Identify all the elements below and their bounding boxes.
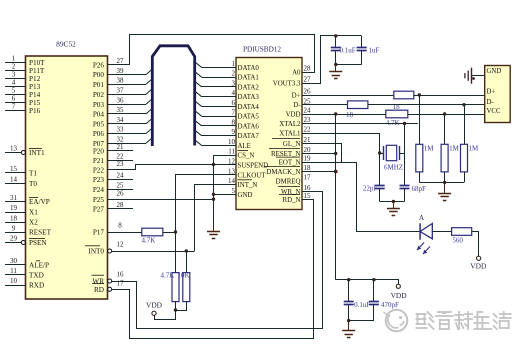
wire RESET_N tie to VDD — [302, 153, 336, 155]
resistor R 1M #3 — [461, 144, 468, 172]
svg-text:INT_N: INT_N — [238, 182, 258, 189]
svg-text:VCC: VCC — [487, 108, 501, 115]
89C52 pin 18 X2 wire — [5, 222, 26, 224]
svg-text:32: 32 — [117, 135, 125, 143]
svg-text:17: 17 — [117, 279, 125, 287]
svg-text:DATA3: DATA3 — [238, 94, 260, 101]
ground (crystal caps) — [393, 202, 395, 209]
svg-text:4.7K: 4.7K — [142, 236, 156, 244]
svg-text:DATA7: DATA7 — [238, 133, 260, 140]
wire XTAL2 row — [302, 123, 418, 125]
svg-text:35: 35 — [117, 106, 125, 114]
power VDD (LED) — [477, 256, 481, 260]
bus entry P00 — [146, 69, 152, 75]
svg-text:RXD: RXD — [29, 282, 44, 290]
capacitor C 0.1uF plates — [331, 47, 341, 49]
svg-text:X2: X2 — [29, 219, 38, 227]
svg-text:EOT_N: EOT_N — [279, 159, 301, 166]
junction DMACK_N/VDD tie — [334, 170, 338, 174]
svg-text:3: 3 — [12, 71, 16, 79]
svg-text:P04: P04 — [93, 111, 105, 119]
capacitor C 22pF plates — [375, 185, 385, 187]
svg-text:GL_N: GL_N — [283, 141, 301, 148]
svg-text:DATA5: DATA5 — [238, 114, 260, 121]
crystal Y1 6MHZ — [380, 153, 384, 155]
svg-text:13: 13 — [10, 145, 18, 153]
PDIUSBD12 pin 7 DATA5 stub + bus entry — [202, 116, 237, 118]
PDIUSBD12 pin 2 DATA1 stub + bus entry — [202, 77, 237, 79]
svg-text:T0: T0 — [29, 180, 37, 188]
89C52 pin 15 T1 wire — [5, 172, 26, 174]
wire P22 jog to SUSPEND — [108, 165, 237, 170]
earth symbol (connector GND) — [471, 68, 473, 84]
89C52 pin 31 EA/VP wire — [5, 201, 26, 203]
net VDD/VCC : wire + resistor 4.7K pull — [302, 114, 386, 116]
bus entry P07 — [146, 138, 152, 144]
junction resistor bottoms — [174, 308, 177, 311]
89C52 pin 8 P17 wire — [108, 232, 142, 234]
capacitor 470pF — [373, 280, 375, 302]
89C52 pin 3 P12 wire — [5, 78, 26, 80]
wire 560 to VDD — [472, 232, 479, 257]
PDIUSBD12 pin 10 ALE stub + bus entry — [202, 145, 237, 147]
capacitor 0.1uF (VOUT3.3) — [335, 36, 337, 47]
svg-text:P11T: P11T — [29, 67, 45, 75]
89C52 pin 14 T0 wire — [5, 183, 26, 185]
svg-text:P22: P22 — [93, 166, 105, 174]
svg-text:ALE: ALE — [238, 143, 251, 150]
svg-text:P14: P14 — [29, 91, 41, 99]
resistor 1M (D-) — [464, 105, 466, 145]
resistor R 4.7K on P17 — [142, 228, 163, 236]
svg-text:19: 19 — [304, 155, 312, 163]
capacitor 1uF — [361, 36, 363, 47]
89C52 pin 29 PSEN wire — [5, 242, 22, 244]
svg-text:P20: P20 — [93, 147, 105, 155]
svg-text:15: 15 — [10, 165, 18, 173]
svg-text:T1: T1 — [29, 169, 37, 177]
svg-text:P00: P00 — [93, 71, 105, 79]
wire P25 to ground net — [108, 199, 214, 201]
svg-text:4.7K: 4.7K — [161, 271, 175, 279]
svg-text:P02: P02 — [93, 91, 105, 99]
svg-text:DATA2: DATA2 — [238, 84, 260, 91]
junction VDD tie-down — [334, 112, 337, 115]
89C52 pin 11 TXD wire — [5, 274, 26, 276]
PDIUSBD12 pin 4 DATA3 stub + bus entry — [202, 96, 237, 98]
89C52 pin 13 INT1 wire — [5, 152, 22, 154]
svg-text:8: 8 — [232, 118, 236, 126]
svg-text:INT0: INT0 — [88, 248, 104, 256]
capacitor C 0.1uF (VDD) plates — [344, 301, 354, 303]
svg-text:6: 6 — [12, 95, 16, 103]
wire crystal cap rail — [380, 201, 405, 203]
svg-text:DATA4: DATA4 — [238, 104, 260, 111]
svg-text:21: 21 — [117, 143, 125, 151]
svg-text:P17: P17 — [93, 229, 105, 237]
wire P26 to A0 (net A0) — [108, 35, 315, 73]
PDIUSBD12 pin 6 DATA4 stub + bus entry — [202, 106, 237, 108]
svg-text:1M: 1M — [449, 144, 460, 152]
junction bottom caps ground — [347, 319, 350, 322]
89C52 pin 9 RESET wire — [5, 232, 26, 234]
LED D1 (GoodLink) — [414, 231, 421, 233]
wire VOUT3.3 to cap rail — [303, 36, 362, 84]
PDIUSBD12 pin 1 DATA0 stub + bus entry — [202, 67, 237, 69]
svg-text:27: 27 — [117, 57, 125, 65]
svg-text:VDD: VDD — [146, 301, 163, 310]
svg-text:4: 4 — [12, 79, 16, 87]
svg-text:VDD: VDD — [391, 291, 408, 300]
svg-text:1M: 1M — [469, 144, 480, 152]
svg-text:6: 6 — [232, 99, 236, 107]
junction 1M rail — [443, 181, 446, 184]
svg-text:1M: 1M — [424, 144, 435, 152]
bus entry P03 — [146, 99, 152, 105]
svg-text:16: 16 — [117, 271, 125, 279]
capacitor 0.1uF (VDD) — [348, 280, 350, 302]
svg-text:22: 22 — [304, 126, 312, 134]
junction P25/ground net — [212, 198, 215, 201]
svg-text:P27: P27 — [93, 205, 105, 213]
resistor R 4.7K (VDD line) — [386, 110, 408, 118]
PDIUSBD12 pin 3 DATA2 stub + bus entry — [202, 86, 237, 88]
resistor R 1M #2 — [441, 144, 448, 172]
svg-text:38: 38 — [117, 77, 125, 85]
svg-text:12: 12 — [117, 241, 125, 249]
wire bottom caps rail — [349, 320, 374, 322]
svg-text:89C52: 89C52 — [56, 40, 76, 49]
bus entry P05 — [146, 118, 152, 124]
capacitor C 1uF plates — [357, 47, 367, 49]
junction 470pF top — [372, 278, 375, 281]
svg-text:1: 1 — [12, 55, 16, 63]
svg-text:9: 9 — [232, 128, 236, 136]
svg-text:SUSPEND: SUSPEND — [238, 163, 269, 170]
svg-text:68pF: 68pF — [412, 185, 427, 193]
svg-text:23: 23 — [117, 160, 125, 168]
89C52 pin 28 P27 wire — [108, 208, 134, 210]
power VDD (supply) — [396, 284, 400, 288]
svg-text:P13: P13 — [29, 83, 41, 91]
junction cap rail — [334, 34, 337, 37]
junction 0.1uF top — [347, 278, 350, 281]
89C52 pin 32 P07 wire — [108, 143, 147, 145]
svg-text:7: 7 — [232, 109, 236, 117]
svg-text:26: 26 — [304, 88, 312, 96]
wire VDD tie-down vertical — [335, 114, 337, 280]
wire P17 resistor to CLKOUT vertical — [163, 232, 176, 234]
wire EOT_N stub — [302, 162, 342, 164]
svg-text:30: 30 — [10, 257, 18, 265]
89C52 pin 33 P06 wire — [108, 133, 147, 135]
WR bubble — [108, 279, 112, 283]
svg-text:33: 33 — [117, 126, 125, 134]
svg-text:A: A — [419, 214, 425, 222]
svg-text:P26: P26 — [93, 62, 105, 70]
junction crystal cap ground — [392, 200, 395, 203]
svg-text:10: 10 — [10, 277, 18, 285]
bus entry P02 — [146, 89, 152, 95]
svg-text:2: 2 — [232, 70, 236, 78]
svg-text:RD: RD — [94, 286, 104, 294]
svg-text:24: 24 — [304, 107, 312, 115]
89C52 pin 35 P04 wire — [108, 113, 147, 115]
svg-text:26: 26 — [117, 189, 125, 197]
svg-text:RD_N: RD_N — [283, 197, 301, 204]
PDIUSBD12 pin 9 DATA7 stub + bus entry — [202, 135, 237, 137]
svg-text:VOUT3.3: VOUT3.3 — [273, 80, 301, 87]
89C52 pin 13 bubble — [21, 151, 25, 155]
junction VCC/1M — [443, 112, 446, 115]
capacitor C 470pF plates — [369, 301, 379, 303]
junction RESET_N/VDD tie — [334, 152, 337, 155]
INT0 bubble — [108, 249, 112, 253]
svg-text:P21: P21 — [93, 157, 105, 165]
89C52 pin 34 P05 wire — [108, 123, 147, 125]
svg-text:P03: P03 — [93, 101, 105, 109]
wire XTAL1 row — [303, 134, 380, 154]
capacitor 68pF — [404, 124, 406, 186]
89C52 pin 39 P00 wire — [108, 74, 147, 76]
svg-text:DATA6: DATA6 — [238, 123, 260, 130]
svg-text:D+: D+ — [487, 89, 496, 96]
svg-text:16: 16 — [304, 184, 312, 192]
net D+ : wire + series resistor 18 — [302, 95, 394, 97]
89C52 pin 22 P21 wire — [108, 160, 134, 162]
power VDD (pull resistors) — [152, 311, 156, 315]
junction P17/CLKOUT — [174, 230, 177, 233]
svg-text:36: 36 — [117, 96, 125, 104]
svg-text:P23: P23 — [93, 176, 105, 184]
svg-text:DATA1: DATA1 — [238, 75, 260, 82]
svg-text:4: 4 — [232, 89, 236, 97]
resistor 1M (VCC) — [444, 114, 446, 144]
resistor R 18 (D+) — [394, 91, 414, 99]
svg-text:28: 28 — [304, 65, 312, 73]
89C52 pin 36 P03 wire — [108, 104, 147, 106]
watermark logo circle — [384, 310, 408, 332]
svg-text:18: 18 — [10, 214, 18, 222]
svg-text:7: 7 — [12, 103, 16, 111]
svg-text:4.7K: 4.7K — [386, 119, 400, 127]
89C52 pin 19 X1 wire — [5, 212, 26, 214]
LED arrows — [417, 243, 424, 251]
bus entry P06 — [146, 128, 152, 134]
resistor R 1M #1 — [416, 144, 423, 172]
svg-text:27: 27 — [304, 76, 312, 84]
wire 1M ground rail — [419, 182, 464, 184]
svg-text:15: 15 — [304, 192, 312, 200]
svg-text:P01: P01 — [93, 81, 105, 89]
wire INT0 riser to INT_N — [195, 185, 237, 252]
IC U2 PDIUSBD12 body — [236, 58, 302, 210]
svg-text:VDD: VDD — [470, 262, 487, 271]
svg-text:P06: P06 — [93, 130, 105, 138]
svg-text:DATA0: DATA0 — [238, 65, 260, 72]
svg-text:0.1uF: 0.1uF — [354, 301, 370, 309]
resistor R 10K (INT0 pull) — [186, 251, 188, 273]
svg-text:DMACK_N: DMACK_N — [266, 169, 300, 176]
svg-text:3: 3 — [232, 79, 236, 87]
svg-text:9: 9 — [12, 224, 16, 232]
IC U1 89C52 body — [26, 56, 108, 299]
89C52 pin 29 bubble — [21, 241, 25, 245]
svg-text:31: 31 — [10, 194, 18, 202]
svg-text:1: 1 — [232, 60, 236, 68]
89C52 pin 4 P13 wire — [5, 86, 26, 88]
svg-text:D-: D- — [293, 102, 301, 109]
89C52 pin 24 P23 wire — [108, 179, 134, 181]
svg-text:P16: P16 — [29, 107, 41, 115]
ground (VOUT3.3 caps) — [335, 65, 337, 72]
89C52 pin 6 P15 wire — [5, 102, 26, 104]
capacitor 22pF — [379, 153, 381, 186]
svg-text:10: 10 — [228, 138, 236, 146]
svg-text:1uF: 1uF — [369, 47, 380, 55]
svg-text:470pF: 470pF — [381, 301, 399, 309]
svg-text:TXD: TXD — [29, 272, 44, 280]
svg-text:P05: P05 — [93, 120, 105, 128]
wire DMACK_N tie to VDD — [302, 171, 336, 173]
svg-text:P12: P12 — [29, 75, 41, 83]
svg-text:GND: GND — [487, 68, 502, 75]
junction cap ground rail — [334, 63, 337, 66]
svg-text:X1: X1 — [29, 209, 38, 217]
connector J1 USB body — [485, 66, 511, 123]
svg-text:29: 29 — [10, 235, 18, 243]
svg-text:VDD: VDD — [286, 111, 301, 118]
capacitor C 68pF plates — [400, 185, 410, 187]
svg-text:WR: WR — [92, 278, 104, 286]
svg-text:28: 28 — [117, 201, 125, 209]
ground (CS_N/P25/GND net) — [213, 223, 215, 231]
junction CS_N/SUSPEND net — [212, 163, 215, 166]
svg-text:INT1: INT1 — [29, 149, 45, 157]
svg-text:EA/VP: EA/VP — [29, 198, 50, 206]
resistor 1M (D+ pulldown) — [419, 95, 421, 144]
junction GND pin — [212, 193, 215, 196]
resistor R 4.7K (vertical, CLKOUT/P17 net) — [172, 273, 179, 302]
svg-text:14: 14 — [10, 176, 18, 184]
ground (VDD caps) — [348, 321, 350, 331]
svg-text:P24: P24 — [93, 186, 105, 194]
svg-text:19: 19 — [10, 204, 18, 212]
svg-text:A0: A0 — [292, 69, 301, 76]
svg-text:P10T: P10T — [29, 59, 45, 67]
svg-text:ALE/P: ALE/P — [29, 261, 49, 269]
watermark text 影音新生活 (drawn strokes) — [417, 312, 434, 329]
svg-text:PDIUSBD12: PDIUSBD12 — [243, 46, 281, 54]
89C52 pin 7 P16 wire — [5, 110, 26, 112]
svg-text:CS_N: CS_N — [238, 153, 255, 160]
wire VDD rail (bottom caps) — [336, 280, 399, 285]
89C52 pin 2 P11T wire — [5, 70, 26, 72]
svg-text:10K: 10K — [178, 271, 190, 279]
svg-text:DMREQ: DMREQ — [276, 178, 301, 185]
wire LED to 560 — [432, 231, 451, 233]
89C52 pin 38 P01 wire — [108, 84, 147, 86]
bus entry P01 — [146, 79, 152, 85]
svg-text:XTAL2: XTAL2 — [279, 121, 301, 128]
svg-text:P25: P25 — [93, 196, 105, 204]
svg-text:22pF: 22pF — [363, 185, 378, 193]
bus entry P04 — [146, 108, 152, 114]
89C52 pin 5 P14 wire — [5, 94, 26, 96]
89C52 pin 21 P20 wire — [108, 150, 134, 152]
PDIUSBD12 pin 8 DATA6 stub + bus entry — [202, 125, 237, 127]
net D- : wire + series resistor 18 — [302, 104, 348, 106]
resistor R 18 (D-) — [348, 101, 368, 109]
svg-text:14: 14 — [228, 177, 236, 185]
svg-text:6MHZ: 6MHZ — [384, 163, 403, 171]
junction INT0/10K — [185, 249, 188, 252]
data bus AD0-AD7 (thick) — [152, 46, 194, 146]
svg-text:PSEN: PSEN — [29, 239, 47, 247]
svg-text:11: 11 — [10, 267, 17, 275]
svg-text:P07: P07 — [93, 140, 105, 148]
svg-text:11: 11 — [228, 148, 235, 156]
svg-text:24: 24 — [117, 172, 125, 180]
89C52 pin 10 RXD wire — [5, 285, 26, 287]
svg-text:RESET: RESET — [29, 229, 52, 237]
svg-text:39: 39 — [117, 67, 125, 75]
junction D-/1M — [462, 103, 465, 106]
svg-text:D-: D- — [487, 99, 495, 106]
svg-text:0.1uF: 0.1uF — [340, 47, 356, 55]
svg-text:XTAL1: XTAL1 — [279, 130, 301, 137]
svg-text:D+: D+ — [292, 92, 301, 99]
wire GL_N to LED — [303, 144, 414, 232]
resistor R 560 — [452, 228, 472, 236]
svg-text:17: 17 — [304, 174, 312, 182]
wire CLKOUT to vertical resistor — [176, 175, 237, 273]
junction crystal left — [378, 151, 381, 154]
svg-text:8: 8 — [118, 222, 122, 230]
svg-text:CLKOUT: CLKOUT — [238, 172, 267, 179]
svg-text:5: 5 — [12, 87, 16, 95]
svg-text:P15: P15 — [29, 99, 41, 107]
svg-text:GND: GND — [238, 192, 253, 199]
89C52 pin 1 P10T wire — [5, 62, 26, 64]
svg-text:2: 2 — [12, 63, 16, 71]
svg-text:560: 560 — [452, 237, 463, 245]
junction D+/1M — [418, 93, 421, 96]
svg-text:5: 5 — [232, 187, 236, 195]
wire cap bottom rail — [336, 64, 362, 66]
ground (1M rail) — [444, 182, 446, 193]
89C52 pin 30 ALE/P wire — [5, 264, 26, 266]
wire VDD to resistor bottoms — [155, 302, 176, 320]
junction XTAL2/crystal — [403, 122, 406, 125]
wire CS_N stub — [214, 156, 237, 231]
svg-text:34: 34 — [117, 116, 125, 124]
89C52 pin 25 P24 wire — [108, 189, 134, 191]
RD bubble — [108, 287, 112, 291]
svg-text:37: 37 — [117, 86, 125, 94]
wire GND pin to ground — [214, 194, 237, 196]
89C52 pin 37 P02 wire — [108, 94, 147, 96]
